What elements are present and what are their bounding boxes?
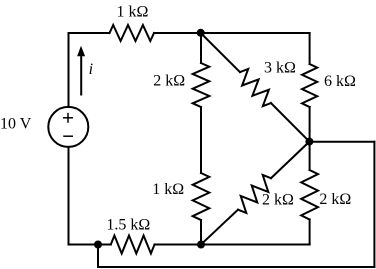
svg-text:10 V: 10 V: [0, 116, 32, 133]
svg-text:2 kΩ: 2 kΩ: [262, 192, 294, 209]
svg-text:i: i: [89, 61, 93, 78]
wire right branch upper: [309, 33, 311, 64]
current arrow head: [77, 46, 85, 57]
svg-text:1 kΩ: 1 kΩ: [152, 181, 184, 198]
node J bottom-middle junction dot: [197, 241, 205, 249]
svg-text:2 kΩ: 2 kΩ: [319, 191, 351, 208]
wire bottom-right segment: [155, 244, 310, 246]
resistor R 6k zigzag: [302, 64, 317, 107]
svg-text:1 kΩ: 1 kΩ: [117, 4, 149, 21]
node D right junction dot: [305, 138, 313, 146]
wire outer bottom horizontal: [98, 266, 374, 268]
wire bottom-left segment: [69, 244, 111, 246]
minus sign inside source: [64, 135, 72, 137]
wire outer right vertical: [373, 142, 375, 267]
svg-text:3 kΩ: 3 kΩ: [264, 59, 296, 76]
resistor R 2k diagonal zigzag: [238, 175, 271, 213]
node H bottom-left junction dot: [94, 241, 102, 249]
wire top-left segment: [69, 32, 110, 34]
voltage source V1 circle: [48, 107, 88, 147]
resistor R 3k diagonal zigzag: [240, 69, 271, 106]
wire middle branch lower: [200, 220, 202, 245]
wire diagonal 2k upper lead: [271, 142, 309, 179]
wire top-right segment: [154, 32, 310, 34]
wire middle branch upper: [200, 33, 202, 63]
node B top junction dot: [197, 29, 205, 37]
svg-text:6 kΩ: 6 kΩ: [324, 73, 356, 90]
resistor R 1k middle zigzag: [193, 173, 210, 220]
wire right branch lower: [309, 220, 311, 245]
resistor R 2k right zigzag: [301, 170, 318, 220]
wire outer stub up to node H: [97, 245, 99, 268]
current arrow shaft: [80, 56, 82, 95]
wire diagonal 2k lower lead: [201, 210, 238, 245]
resistor R 1.5k zigzag: [111, 236, 155, 254]
wire junction D to right edge: [310, 141, 375, 143]
plus sign inside source: [64, 114, 72, 122]
resistor R top 1k zigzag: [110, 25, 155, 41]
wire middle branch center: [200, 107, 202, 173]
wire diagonal 3k upper lead: [201, 33, 240, 72]
svg-text:1.5 kΩ: 1.5 kΩ: [106, 216, 150, 233]
wire left upper: [68, 33, 70, 107]
resistor R 2k middle zigzag: [193, 63, 210, 107]
wire right branch middle: [309, 107, 311, 170]
wire diagonal 3k lower lead: [271, 103, 309, 142]
svg-text:2 kΩ: 2 kΩ: [153, 72, 185, 89]
wire left lower: [68, 147, 70, 245]
